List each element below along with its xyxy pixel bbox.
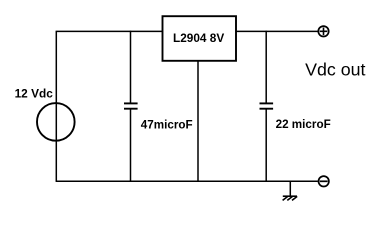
svg-text:12 Vdc: 12 Vdc <box>15 89 54 101</box>
wire: left vertical (source branch) <box>55 31 57 181</box>
svg-text:22 microF: 22 microF <box>276 119 331 131</box>
wire: regulator ground pin down to bottom rail <box>197 61 199 182</box>
wire: bottom rail <box>56 180 318 182</box>
wire: top rail left segment (corner to regulator input) <box>56 30 163 32</box>
wire: ground stub <box>289 181 291 196</box>
wire: capacitor C2 bottom lead <box>265 109 267 182</box>
wire: top rail right segment (regulator output to + terminal) <box>236 30 318 32</box>
terminal: + output <box>318 26 328 36</box>
voltage source V1 (12 Vdc) <box>37 103 75 141</box>
svg-text:Vdc out: Vdc out <box>305 60 366 80</box>
capacitor C1 (47microF) plates <box>124 103 138 108</box>
ground symbol <box>283 196 298 200</box>
wire: capacitor C1 top lead <box>130 31 132 104</box>
wire: capacitor C1 bottom lead <box>130 109 132 182</box>
svg-text:L2904 8V: L2904 8V <box>173 33 225 45</box>
regulator U1 box <box>163 16 237 61</box>
svg-text:47microF: 47microF <box>141 119 193 131</box>
terminal: - output <box>319 176 329 186</box>
capacitor C2 (22 microF) plates <box>260 103 274 108</box>
wire: capacitor C2 top lead <box>265 31 267 104</box>
